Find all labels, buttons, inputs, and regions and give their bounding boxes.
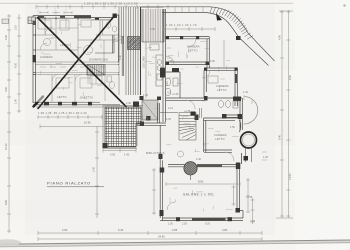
small dims near circles — [244, 95, 267, 160]
vertical dim line center — [95, 126, 99, 218]
room labels left block — [40, 43, 108, 100]
svg-text:CAMERA: CAMERA — [214, 133, 227, 137]
svg-text:+0.45: +0.45 — [246, 196, 253, 199]
svg-text:4.05: 4.05 — [166, 118, 171, 121]
svg-text:1.40: 1.40 — [243, 91, 248, 94]
svg-text:4.90: 4.90 — [4, 34, 8, 40]
dark piers salone — [160, 163, 241, 222]
vertical stripe terrace band (wide, top) — [142, 9, 164, 42]
kitchen walls and fixtures — [146, 42, 163, 98]
svg-text:1.45: 1.45 — [263, 156, 268, 159]
top page edge line — [0, 2, 293, 4]
svg-text:2.40: 2.40 — [196, 158, 201, 161]
top dim line — [36, 5, 168, 9]
svg-text:6.30: 6.30 — [118, 228, 124, 232]
svg-text:4.80: 4.80 — [222, 228, 228, 232]
svg-text:4.20: 4.20 — [14, 62, 18, 68]
svg-text:2.90: 2.90 — [62, 228, 68, 232]
svg-text:SALETTA: SALETTA — [80, 96, 93, 100]
svg-text:5.40: 5.40 — [119, 55, 122, 60]
left dim line A — [7, 14, 11, 233]
svg-text:14.60: 14.60 — [288, 173, 292, 180]
bottom wall of left block — [33, 102, 120, 105]
svg-text:1.10: 1.10 — [168, 107, 173, 110]
big dense crosshatch block — [105, 107, 141, 124]
small boxes top-left — [28, 17, 36, 24]
bed upper room — [208, 76, 218, 83]
svg-text:+0.45: +0.45 — [172, 93, 179, 96]
svg-text:8.80: 8.80 — [4, 199, 8, 205]
winder stair fan — [179, 113, 196, 141]
svg-text:4.05: 4.05 — [110, 153, 116, 157]
stair-side walls — [158, 103, 160, 123]
dark square on top wall — [113, 14, 118, 19]
circular bay upper (light) — [244, 97, 258, 125]
svg-text:9.20: 9.20 — [205, 223, 210, 226]
secondary ticks above left part of wall — [40, 11, 72, 14]
mid stairs — [142, 100, 158, 120]
vertical stripe terrace band (narrow, tall) — [119, 7, 140, 44]
steps bottom right of salone — [251, 198, 255, 224]
thick wall band bottom middle — [192, 218, 226, 221]
svg-text:4.30: 4.30 — [150, 28, 155, 31]
circular bay lower (bold) — [241, 132, 257, 148]
dark arrow on ramp — [216, 13, 222, 21]
svg-text:8.60: 8.60 — [288, 74, 292, 80]
left rotated dim texts — [4, 24, 18, 205]
salone top dim line — [166, 182, 240, 186]
bottom scan band — [0, 240, 350, 247]
wall from circle to right — [197, 165, 237, 167]
right wing walls — [160, 37, 242, 153]
svg-text:CAMERA: CAMERA — [216, 84, 229, 88]
svg-text:PIANO RIALZATO: PIANO RIALZATO — [47, 181, 91, 186]
camera letto lower label — [214, 133, 227, 141]
svg-text:3.10: 3.10 — [166, 81, 169, 86]
dark piers on bottom wall — [44, 102, 92, 106]
svg-text:3.90: 3.90 — [210, 60, 215, 63]
svg-text:24.40: 24.40 — [158, 235, 165, 239]
corridor tiny texts — [168, 93, 191, 113]
dark piers at grid — [103, 143, 108, 148]
svg-text:8.90: 8.90 — [198, 180, 204, 184]
svg-text:CUCINA: CUCINA — [142, 56, 146, 68]
bathroom fixtures — [165, 78, 238, 108]
scan clutter strokes — [41, 24, 239, 212]
bottom-left scan smudge — [0, 239, 21, 245]
svg-text:2.85: 2.85 — [172, 228, 178, 232]
svg-text:1.30 1.20 1.30 1.70: 1.30 1.20 1.30 1.70 — [166, 23, 197, 27]
svg-text:SALONE (-1.90): SALONE (-1.90) — [183, 193, 214, 197]
svg-text:DISIMPEGNO: DISIMPEGNO — [89, 58, 108, 62]
svg-text:1.50: 1.50 — [230, 126, 235, 129]
bottom dim rows — [62, 228, 228, 232]
svg-text:1.50: 1.50 — [168, 223, 173, 226]
svg-text:2.55: 2.55 — [182, 223, 187, 226]
svg-text:4.90: 4.90 — [278, 34, 282, 40]
svg-text:2.30: 2.30 — [126, 102, 131, 105]
svg-text:LETTO: LETTO — [217, 88, 227, 92]
svg-text:LETTO: LETTO — [188, 49, 198, 53]
svg-text:2.30: 2.30 — [92, 166, 96, 172]
svg-text:1.45: 1.45 — [143, 94, 148, 97]
small dense crosshatch square (pergola small) — [128, 37, 141, 50]
hatched circle column — [184, 162, 197, 175]
svg-text:CAMERA: CAMERA — [40, 55, 53, 59]
camera letto label (upper) — [187, 45, 200, 53]
svg-text:8.40: 8.40 — [278, 134, 282, 140]
window marks on top wall — [38, 17, 99, 19]
wardrobe line — [223, 40, 225, 67]
interior partitions — [33, 17, 78, 62]
camera letto 2 label — [216, 84, 229, 92]
thick corner blob bottom-left — [34, 97, 44, 107]
svg-text:15.20: 15.20 — [4, 143, 8, 150]
tiny dim marks inside corridor — [40, 66, 106, 68]
driveway curves — [162, 7, 275, 66]
svg-text:LETTO: LETTO — [57, 95, 67, 99]
dark pier on left wall — [33, 55, 36, 62]
right dim lines — [276, 10, 293, 218]
svg-text:1.05·1.35·.95·1.35·1.35·1.45·2: 1.05·1.35·.95·1.35·1.35·1.45·2.30 — [38, 111, 87, 115]
dim line under top wall — [163, 27, 215, 31]
hatched window band top wall — [74, 15, 91, 18]
svg-text:3.60: 3.60 — [4, 86, 8, 92]
right outer wall connecting circles — [240, 120, 242, 164]
outer walls — [33, 15, 119, 20]
door arcs — [166, 39, 234, 210]
svg-text:10.90: 10.90 — [84, 121, 91, 125]
svg-text:1.90: 1.90 — [14, 98, 18, 104]
straight stair hatched (top center) — [87, 65, 105, 76]
central wall — [141, 6, 163, 8]
furniture squiggles left block — [38, 20, 117, 88]
left dim line B — [17, 14, 21, 113]
svg-text:LETTO: LETTO — [215, 137, 225, 141]
svg-text:1.45: 1.45 — [124, 153, 130, 157]
dark piers right wing — [160, 36, 242, 120]
left margin detail box — [2, 19, 9, 24]
svg-text:0.45: 0.45 — [250, 220, 255, 223]
svg-text:1.20·1.95·2.35·1.30·2.30·1.10·: 1.20·1.95·2.35·1.30·2.30·1.10·2.35 — [84, 2, 138, 6]
scattered tiny dims — [119, 28, 235, 161]
svg-text:2.90: 2.90 — [168, 60, 173, 63]
grid block bottom dims — [103, 149, 136, 153]
svg-text:2.10: 2.10 — [14, 24, 18, 30]
left outside dim line — [152, 168, 156, 215]
driveway fan hatch — [210, 7, 253, 39]
